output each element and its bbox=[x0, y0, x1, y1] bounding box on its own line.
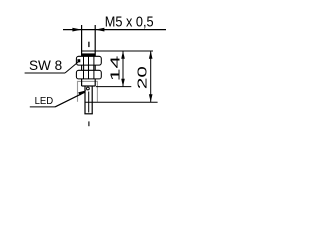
leader line LED bbox=[30, 92, 85, 107]
centerline dash below tube bbox=[88, 121, 90, 126]
upper nut SW8 bbox=[76, 56, 101, 65]
thick band (washer) above upper nut bbox=[82, 53, 96, 56]
dimension line M5 bbox=[63, 29, 166, 31]
leader dot SW 8 bbox=[77, 59, 80, 62]
thread end / reference extension line bbox=[82, 50, 153, 52]
LED circle bbox=[87, 87, 90, 90]
svg-text:M5 x 0,5: M5 x 0,5 bbox=[105, 14, 154, 31]
extension line at 14 bottom bbox=[96, 86, 132, 88]
barrel left edge / extension line bbox=[81, 25, 83, 56]
svg-text:SW 8: SW 8 bbox=[29, 57, 62, 73]
dimension line 20 bbox=[150, 51, 152, 102]
arrowheads 14 bbox=[121, 51, 125, 87]
barrel below lower nut bbox=[82, 79, 96, 86]
gray phantom lines below lower nut bbox=[78, 81, 98, 102]
leader arrowhead LED bbox=[78, 90, 86, 95]
svg-text:LED: LED bbox=[35, 96, 54, 107]
rear tube right edge bbox=[91, 86, 93, 114]
leader line SW 8 bbox=[25, 62, 79, 73]
barrel between nuts bbox=[82, 65, 96, 70]
arrowheads M5 dimension bbox=[72, 28, 104, 32]
tube bottom bbox=[84, 113, 92, 115]
rear tube left edge bbox=[84, 86, 86, 114]
lower nut bbox=[76, 70, 101, 79]
centerline inside tube bbox=[88, 92, 90, 113]
barrel right edge / extension line bbox=[94, 25, 96, 56]
housing end line bbox=[82, 85, 96, 87]
svg-text:14: 14 bbox=[108, 56, 123, 82]
extension line at 20 bottom bbox=[85, 101, 158, 103]
svg-text:20: 20 bbox=[135, 66, 150, 89]
arrowheads 20 bbox=[149, 51, 153, 102]
dimension line 14 bbox=[122, 51, 124, 87]
centerline dash on barrel bbox=[88, 42, 90, 47]
